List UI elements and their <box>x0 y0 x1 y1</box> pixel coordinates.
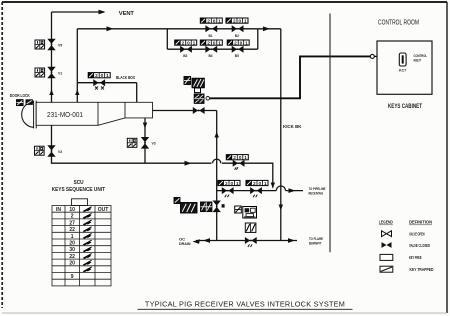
wire second riser x=77.3 <box>76 29 78 103</box>
svg-text:RECEIVING: RECEIVING <box>309 191 324 196</box>
key strip L2 <box>200 40 222 47</box>
key box for valve V1 <box>35 68 45 77</box>
solenoid group left of kicker valve <box>174 198 197 214</box>
valve on major drain <box>47 145 62 157</box>
svg-text:BLACK BOX: BLACK BOX <box>116 75 135 80</box>
valve L2 lower row <box>205 46 217 59</box>
svg-text:SCU: SCU <box>74 180 84 186</box>
wire bypass lower line <box>167 48 257 50</box>
solenoid block above <box>192 78 204 92</box>
wire drop to minor barrel x=136.7 <box>136 83 138 103</box>
key strip P1 <box>218 180 240 187</box>
svg-text:B4: B4 <box>209 54 213 58</box>
key symbol header <box>83 207 91 212</box>
svg-text:VENT: VENT <box>119 11 135 17</box>
svg-text:VALVE CLOSED: VALVE CLOSED <box>409 243 430 248</box>
border frame right <box>446 2 448 313</box>
svg-text:B3: B3 <box>183 54 187 58</box>
svg-text:KEY TRAPPED: KEY TRAPPED <box>410 267 434 272</box>
border frame top <box>2 1 447 3</box>
arrow to pipeline <box>289 188 296 193</box>
flow arrow down x=272.8 <box>271 183 275 189</box>
wire right drop x=280.8 <box>280 29 282 241</box>
svg-text:30: 30 <box>69 247 75 253</box>
wire drain run continues to drop x=272.8 <box>222 163 273 187</box>
svg-text:CONTROL: CONTROL <box>414 54 428 58</box>
SCU table header row <box>56 207 108 213</box>
svg-text:1: 1 <box>71 234 74 240</box>
arrow left at header start <box>193 239 201 244</box>
svg-text:V2: V2 <box>58 150 62 154</box>
valve T2 upper row <box>232 25 244 38</box>
svg-text:OUT: OUT <box>98 207 109 213</box>
valve L1 lower row <box>180 46 192 59</box>
wire top line y=28.8 to loop <box>77 28 280 30</box>
door lock key box <box>17 100 24 106</box>
wire vent riser x=51.5 <box>51 12 53 102</box>
svg-text:CONTROL ROOM: CONTROL ROOM <box>378 20 419 27</box>
valve P2 lower row <box>250 187 262 194</box>
svg-text:V1: V1 <box>58 72 62 76</box>
svg-text:KEYS CABINET: KEYS CABINET <box>388 103 422 110</box>
key strip for black box valve <box>88 73 110 80</box>
hop over x=280.8 <box>276 186 285 191</box>
SCU table rows numbers <box>69 214 75 280</box>
svg-text:KEY FREE: KEY FREE <box>409 255 422 260</box>
svg-text:VALVE OPEN: VALVE OPEN <box>409 232 425 237</box>
key box major drain valve <box>35 146 45 155</box>
wire outlet drop x=216.7 <box>216 111 218 241</box>
svg-text:27: 27 <box>69 220 75 226</box>
svg-text:DEFINITION: DEFINITION <box>409 220 433 225</box>
valve on drain run <box>233 160 245 167</box>
hop of drain line over x=216.7 <box>213 159 221 163</box>
vessel 231-MO-001 closure arc <box>22 102 34 128</box>
svg-text:B5: B5 <box>235 54 239 58</box>
svg-text:IN: IN <box>56 207 61 213</box>
svg-text:B2: B2 <box>235 34 239 38</box>
svg-text:TYPICAL PIG RECEIVER VALVES IN: TYPICAL PIG RECEIVER VALVES INTERLOCK SY… <box>145 300 345 309</box>
main line valve SDV <box>193 107 205 114</box>
svg-text:231-MO-001: 231-MO-001 <box>47 110 83 119</box>
keys cabinet box <box>377 41 432 94</box>
svg-text:KICK BK: KICK BK <box>283 124 302 130</box>
key strip L3 <box>227 40 249 47</box>
arrow right on header <box>288 238 295 243</box>
svg-text:10: 10 <box>69 207 75 213</box>
signal line (heavy) to control room <box>210 56 370 98</box>
svg-text:KEY: KEY <box>414 59 422 63</box>
legend valve open symbol <box>382 231 392 237</box>
vessel major barrel <box>36 102 98 125</box>
svg-text:BURNPIT: BURNPIT <box>309 240 322 245</box>
flow arrow up x=216.7 <box>215 132 219 138</box>
border frame bottom <box>2 312 447 314</box>
door lock key symbol <box>26 100 32 105</box>
svg-text:2: 2 <box>71 214 74 220</box>
key box above drain valve (2 stacked cells) <box>245 223 256 232</box>
svg-text:20: 20 <box>69 241 75 247</box>
svg-text:KEYS SEQUENCE UNIT: KEYS SEQUENCE UNIT <box>52 187 106 193</box>
solenoid group above drain valve <box>235 206 257 218</box>
legend valve closed symbol <box>382 242 392 248</box>
key strip P2 <box>246 180 268 187</box>
wire bottom drain header y=240.5 <box>196 240 297 242</box>
key box kicker valve <box>201 202 212 212</box>
vessel taper bottom <box>98 118 125 125</box>
valve L3 lower row <box>232 46 244 59</box>
wire black box branch y=82.7 <box>77 82 136 84</box>
valve P1 lower row <box>222 187 234 194</box>
valve on black box line <box>93 79 105 89</box>
SCU table top tab <box>72 199 88 206</box>
key strip L1 <box>175 40 197 47</box>
wire lower row y=190.6 <box>217 190 277 192</box>
key symbols in rows <box>83 213 91 218</box>
SCU table grid <box>52 206 111 286</box>
svg-text:KC7: KC7 <box>399 69 406 73</box>
wire minor barrel drain x=145 <box>144 118 146 163</box>
svg-text:B1: B1 <box>209 34 213 38</box>
svg-text:22: 22 <box>69 227 75 233</box>
svg-text:20: 20 <box>69 261 75 267</box>
legend key free symbol <box>380 254 393 260</box>
small key box left of solenoid <box>184 77 191 85</box>
valve on vertical x=216.7 (kicker) <box>213 201 225 213</box>
flow arrow down x=280.8 <box>279 205 283 211</box>
svg-text:DRAIN: DRAIN <box>179 241 191 246</box>
key box minor drain valve <box>127 138 137 147</box>
valve V1 (lower on vent riser) <box>47 67 62 79</box>
key strip T1 <box>200 18 222 25</box>
flow arrow up on vent riser <box>49 90 53 96</box>
control room boundary line <box>329 14 331 253</box>
svg-text:V3: V3 <box>152 142 156 146</box>
vessel minor barrel <box>98 102 153 118</box>
wire after hop with arrow <box>286 190 304 192</box>
drain header valve <box>245 237 257 244</box>
junction arrow on header <box>203 238 210 243</box>
valve V2 (upper on vent riser) <box>47 39 62 51</box>
key icon in cabinet <box>399 53 406 66</box>
valve T1 upper row <box>205 25 217 38</box>
legend key trapped symbol <box>380 266 393 272</box>
connector circle to signal line <box>206 97 210 101</box>
bypass loop right edge <box>257 29 259 49</box>
svg-text:9: 9 <box>71 274 74 280</box>
arrow vent line <box>99 10 106 15</box>
wire vent top run <box>52 11 105 13</box>
arrow on drain run <box>185 161 192 166</box>
flow arrow down x=145 <box>143 123 147 129</box>
svg-text:22: 22 <box>69 254 75 260</box>
wire main outlet line <box>153 110 217 112</box>
vessel closure flange <box>33 101 35 129</box>
border frame left (dashed) <box>1 2 3 308</box>
valve on minor drain <box>141 137 156 149</box>
wire major barrel drain x=51.5 down <box>52 125 212 163</box>
svg-text:DOOR LOCK: DOOR LOCK <box>10 93 30 98</box>
svg-text:LEGEND: LEGEND <box>379 220 393 225</box>
key strip T2 <box>226 18 248 25</box>
terminator circle at keys cabinet <box>370 54 374 58</box>
arrow after loop <box>263 26 270 31</box>
bypass loop left edge <box>166 29 168 49</box>
arrow on top line <box>107 26 114 31</box>
key strip drain run valve <box>226 155 248 162</box>
svg-text:V5: V5 <box>58 44 62 48</box>
flow arrow up riser2 <box>75 90 79 96</box>
key box for valve V2 <box>35 40 45 49</box>
actuator key box above SDV <box>194 94 204 103</box>
